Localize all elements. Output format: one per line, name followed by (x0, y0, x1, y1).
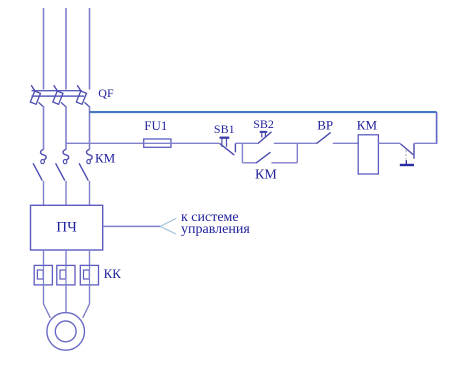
svg-text:КК: КК (104, 266, 122, 281)
contactor coil KM (358, 135, 378, 174)
QF pole 1 trip rectangle (30, 91, 40, 104)
wire phase L1 below QF (43, 106, 45, 150)
KM latch branch right rise (296, 143, 298, 163)
QF pole 1 tick (31, 85, 35, 91)
contactor KM pole 2 blade (56, 163, 65, 180)
fuse FU1 wire through (144, 142, 171, 144)
circuit breaker QF linkage bar lower (32, 95, 85, 97)
wire PCH to control fork (103, 225, 161, 227)
contactor KM pole 3 arc (87, 149, 93, 159)
pushbutton SB1 stem right (226, 139, 228, 147)
wire phase L3 below QF (89, 106, 91, 150)
thermal relay KK heater 2 inner (60, 270, 66, 279)
QF pole 2 blade (61, 102, 66, 106)
thermal relay KK element bar (400, 164, 414, 166)
pushbutton SB2 cap (260, 131, 268, 133)
wire KK to motor left (44, 285, 51, 318)
control wire from phase L2 to fuse (66, 142, 144, 144)
pushbutton SB1 blade (NC) (220, 144, 235, 156)
wire through KK heater 1 (43, 265, 45, 285)
wire KK to motor right (83, 285, 90, 318)
thermal relay KK heater 3 inner (84, 270, 90, 279)
circuit breaker QF linkage bar upper (32, 90, 83, 92)
wire PCH to KK pole 1 (43, 250, 45, 265)
svg-text:КМ: КМ (357, 117, 378, 132)
BP contact blade (NO) (317, 132, 331, 143)
thermal relay KK heater 3 box (80, 265, 98, 285)
KM latch bottom wire left (242, 162, 256, 164)
svg-text:SB1: SB1 (214, 122, 235, 136)
thermal relay KK heater 1 inner (37, 270, 43, 279)
wire PCH to KK pole 3 (89, 250, 91, 265)
contactor KM pole 2 arc (63, 149, 69, 159)
thermal relay KK heater 2 box (57, 265, 75, 285)
wire PCH to KK pole 2 (65, 250, 67, 265)
contactor KM pole 3 blade (79, 163, 88, 180)
thermal relay KK heater 1 box (34, 265, 52, 285)
wire BP to KM coil (333, 142, 359, 144)
QF pole 3 tick (77, 85, 81, 91)
wire through KK heater 3 (89, 265, 91, 285)
wire SB1 to SB2 (235, 142, 257, 144)
wire KK contact to bus drop (414, 142, 436, 144)
QF pole 2 tick (54, 85, 58, 91)
motor M inner circle (55, 321, 76, 342)
svg-text:SB2: SB2 (253, 117, 274, 131)
wire phase L1 top (43, 8, 45, 90)
control bus wire (top, bright blue) (90, 111, 437, 113)
thermal relay KK linkage dashes (405, 150, 407, 160)
pushbutton SB1 stem left (221, 139, 223, 147)
svg-text:КМ: КМ (255, 167, 277, 182)
control fork upper prong (160, 218, 176, 226)
fuse FU1 body (144, 139, 171, 147)
wire KM pole 1 to PCH (43, 181, 45, 206)
contactor KM pole 1 arc (41, 149, 47, 159)
pushbutton SB1 right post (234, 143, 236, 152)
KM latch branch left drop (241, 143, 243, 163)
pushbutton SB2 stem left (261, 133, 263, 138)
svg-text:FU1: FU1 (144, 118, 167, 133)
control bus right drop wire (436, 112, 438, 144)
QF pole 3 blade (85, 102, 90, 106)
QF pole 3 trip rectangle (76, 91, 86, 104)
wire KM pole 2 to PCH (65, 181, 67, 206)
thermal relay KK contact blade (NC) (401, 144, 414, 155)
pushbutton SB2 blade (NO) (258, 132, 272, 144)
thermal relay KK element tick (405, 160, 407, 164)
svg-text:ПЧ: ПЧ (56, 220, 77, 236)
pushbutton SB2 stem right (264, 133, 266, 138)
wire phase L2 top (65, 8, 67, 90)
control fork lower prong (160, 226, 176, 234)
QF pole 1 blade (39, 102, 44, 106)
wire fuse to SB1 (171, 142, 220, 144)
wire KM coil to KK contact (378, 142, 400, 144)
contactor KM pole 1 blade (33, 163, 42, 180)
pushbutton SB1 cap (220, 137, 230, 139)
wire through KK heater 2 (65, 265, 67, 285)
svg-text:КМ: КМ (95, 151, 116, 166)
wire phase L2 below QF (65, 106, 67, 150)
svg-text:ВР: ВР (317, 117, 333, 132)
QF pole 2 trip rectangle (53, 91, 63, 104)
wire KM pole 3 to PCH (89, 181, 91, 206)
wire SB2 to BP contact (274, 142, 317, 144)
thermal relay KK contact right post (413, 143, 415, 158)
motor M outer circle (47, 313, 85, 351)
wire KK to motor middle (65, 285, 67, 313)
wire phase L3 top (89, 8, 91, 90)
frequency converter PCH box (31, 205, 103, 250)
KM latch bottom wire right (271, 162, 297, 164)
KM latch contact blade (NO) (256, 152, 271, 163)
svg-text:управления: управления (181, 222, 250, 237)
svg-text:QF: QF (98, 86, 114, 100)
